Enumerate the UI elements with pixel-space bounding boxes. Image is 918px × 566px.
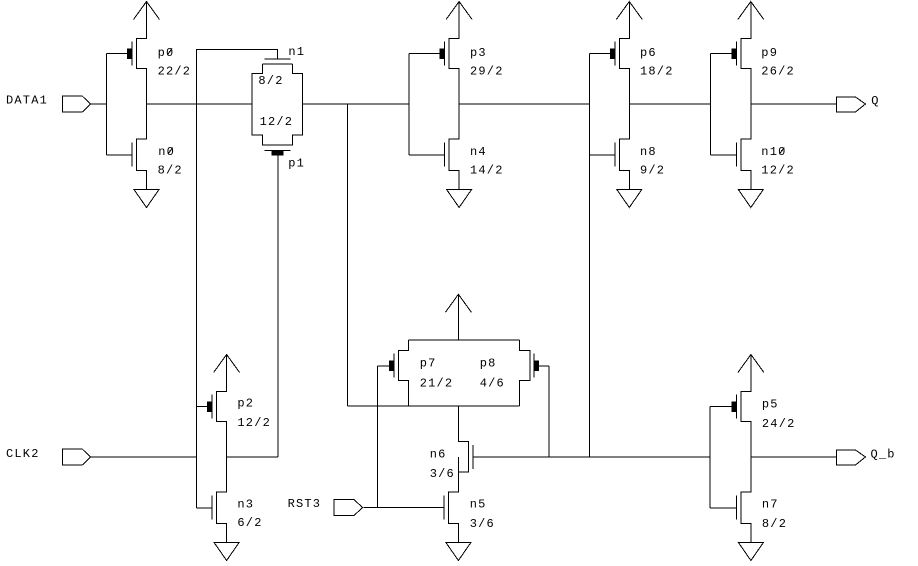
wire bbox=[629, 103, 710, 105]
input pin DATA1 bbox=[62, 96, 90, 112]
wire bbox=[303, 103, 410, 105]
vdd arrow reset gate bbox=[445, 294, 471, 340]
transistor n8 with ground bbox=[589, 104, 642, 208]
svg-text:6/2: 6/2 bbox=[237, 516, 262, 530]
gate box p7/p8 parallel pmos bbox=[348, 340, 530, 406]
transistor n3 with ground bbox=[197, 457, 239, 561]
svg-text:n10: n10 bbox=[761, 145, 786, 159]
transistor p6 with VDD arrow bbox=[589, 2, 642, 105]
transistor p3 with VDD arrow bbox=[409, 2, 472, 105]
transistor n5 with ground bbox=[444, 457, 471, 561]
svg-text:p2: p2 bbox=[237, 397, 254, 411]
svg-text:12/2: 12/2 bbox=[260, 115, 294, 129]
wire bbox=[459, 103, 589, 105]
wire p8 gate to Q_b net bbox=[548, 366, 550, 457]
transistor n7 with ground bbox=[710, 457, 763, 561]
node gate loop p5/n7 bbox=[709, 407, 711, 508]
svg-text:p6: p6 bbox=[640, 46, 657, 60]
transistor n0 with ground bbox=[106, 104, 159, 208]
transistor p5 with VDD arrow bbox=[710, 355, 764, 458]
wire bbox=[91, 103, 107, 105]
svg-text:n0: n0 bbox=[158, 145, 175, 159]
wire node to reset gate bbox=[347, 104, 349, 406]
node gate loop inverter1 bbox=[105, 54, 107, 155]
svg-text:p9: p9 bbox=[761, 46, 778, 60]
transistor p9 with VDD arrow bbox=[710, 2, 763, 105]
svg-text:3/6: 3/6 bbox=[430, 467, 455, 481]
transistor p0 with VDD arrow bbox=[106, 2, 159, 105]
wire reset gate output bbox=[457, 406, 459, 442]
transistor p8 gate bbox=[534, 354, 549, 378]
svg-text:n3: n3 bbox=[237, 497, 254, 511]
wire bbox=[147, 103, 253, 105]
svg-text:CLK2: CLK2 bbox=[6, 447, 40, 461]
svg-text:n4: n4 bbox=[470, 145, 487, 159]
svg-text:p8: p8 bbox=[480, 356, 497, 370]
svg-text:n6: n6 bbox=[430, 448, 447, 462]
node gate loop inverter4 bbox=[709, 54, 711, 155]
svg-text:8/2: 8/2 bbox=[762, 517, 787, 531]
svg-text:n1: n1 bbox=[288, 45, 305, 59]
input pin CLK2 bbox=[62, 449, 90, 465]
svg-text:12/2: 12/2 bbox=[237, 416, 271, 430]
svg-text:21/2: 21/2 bbox=[420, 376, 454, 390]
output pin Q_b bbox=[837, 450, 866, 465]
svg-text:n5: n5 bbox=[470, 498, 487, 512]
wire bbox=[751, 103, 837, 105]
wire bbox=[751, 456, 837, 458]
svg-text:29/2: 29/2 bbox=[470, 65, 504, 79]
transistor p7 gate bbox=[377, 354, 394, 378]
svg-text:p1: p1 bbox=[288, 157, 305, 171]
svg-text:RST3: RST3 bbox=[288, 497, 322, 511]
svg-text:18/2: 18/2 bbox=[640, 65, 674, 79]
wire bbox=[91, 456, 197, 458]
transistor p2 with VDD arrow bbox=[197, 355, 240, 458]
transistor n6 bbox=[458, 406, 473, 492]
wire bbox=[364, 507, 444, 509]
svg-text:p7: p7 bbox=[420, 356, 437, 370]
svg-text:p5: p5 bbox=[762, 398, 779, 412]
svg-text:Q_b: Q_b bbox=[871, 447, 896, 461]
svg-text:9/2: 9/2 bbox=[640, 164, 665, 178]
input pin RST3 bbox=[334, 500, 362, 516]
node gate loop inverter2 bbox=[408, 54, 410, 155]
svg-text:24/2: 24/2 bbox=[762, 417, 796, 431]
wire clock net vertical bbox=[197, 49, 278, 508]
output pin Q bbox=[837, 97, 866, 112]
wire p1 gate vertical bbox=[277, 155, 279, 457]
svg-text:26/2: 26/2 bbox=[761, 65, 795, 79]
wire clkb bbox=[227, 456, 278, 458]
svg-text:n8: n8 bbox=[640, 145, 657, 159]
svg-text:p3: p3 bbox=[470, 46, 487, 60]
transistor n10 with ground bbox=[710, 104, 763, 208]
svg-text:n7: n7 bbox=[762, 498, 779, 512]
transmission gate n1/p1 bbox=[252, 59, 302, 155]
wire p7 gate to RST3 net bbox=[376, 366, 378, 508]
svg-text:12/2: 12/2 bbox=[761, 164, 795, 178]
svg-text:3/6: 3/6 bbox=[470, 517, 495, 531]
svg-text:22/2: 22/2 bbox=[158, 65, 192, 79]
svg-text:14/2: 14/2 bbox=[470, 164, 504, 178]
transistor n4 with ground bbox=[409, 104, 471, 208]
svg-text:8/2: 8/2 bbox=[258, 74, 283, 88]
slashed zeros bbox=[167, 48, 784, 154]
svg-text:4/6: 4/6 bbox=[480, 376, 505, 390]
svg-text:p0: p0 bbox=[158, 46, 175, 60]
svg-text:DATA1: DATA1 bbox=[6, 93, 48, 107]
node gate loop inverter3 extended to Q_b net bbox=[588, 54, 590, 457]
svg-text:Q: Q bbox=[871, 94, 879, 108]
svg-text:8/2: 8/2 bbox=[158, 164, 183, 178]
wire Q_b feedback net bbox=[473, 456, 710, 458]
